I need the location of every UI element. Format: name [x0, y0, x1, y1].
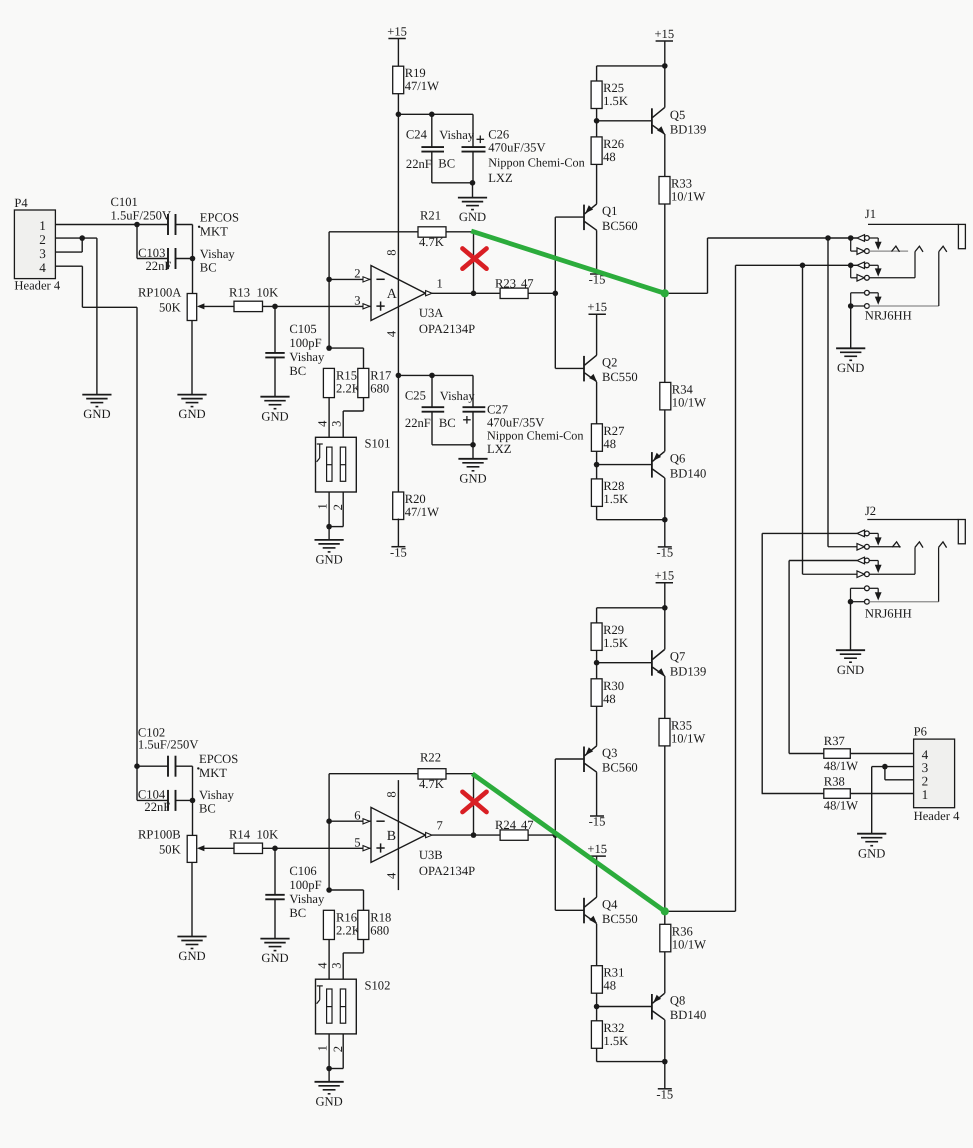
- wire R33 to R34 with output node: [664, 204, 666, 382]
- wire C25 to gnd node: [432, 444, 473, 446]
- svg-text:BD139: BD139: [670, 664, 706, 678]
- wire +15 to R19: [397, 39, 399, 67]
- wire to -15 node B: [597, 1061, 665, 1063]
- svg-text:GND: GND: [315, 553, 342, 567]
- J1 ring NC contact: [851, 252, 915, 282]
- svg-text:3: 3: [354, 294, 360, 308]
- mark EPCOS: [198, 226, 200, 228]
- node S102 gnd: [326, 1066, 332, 1072]
- svg-text:47: 47: [521, 818, 534, 832]
- switch S101: [316, 437, 391, 493]
- svg-text:C105: C105: [289, 322, 316, 336]
- svg-text:R26: R26: [603, 137, 624, 151]
- transistor Q8: [652, 993, 706, 1022]
- J2 ring NC contact: [803, 547, 916, 577]
- svg-text:1.5uF/250V: 1.5uF/250V: [138, 738, 199, 752]
- svg-text:8: 8: [385, 249, 399, 255]
- wire C104 left: [137, 799, 168, 801]
- wire pin2 to pin1 B: [329, 1068, 343, 1070]
- pin labels S101 top: [315, 420, 343, 427]
- svg-text:Nippon Chemi-Con: Nippon Chemi-Con: [487, 429, 583, 443]
- wire pin4 node to C102: [137, 765, 168, 767]
- wire to ground: [472, 445, 474, 459]
- J1 sleeve NC contact: [851, 252, 939, 309]
- wire R20 to -15: [397, 519, 399, 547]
- svg-text:EPCOS: EPCOS: [200, 211, 239, 225]
- resistor R31: [591, 966, 624, 994]
- wire C104 right: [176, 799, 193, 801]
- svg-text:RP100B: RP100B: [138, 827, 181, 841]
- wire to R29: [597, 607, 665, 609]
- svg-text:R23: R23: [495, 276, 516, 290]
- resistor R30: [591, 679, 624, 707]
- wire pin3 up to pin2: [81, 238, 83, 252]
- svg-text:1.5K: 1.5K: [603, 636, 628, 650]
- ground C106: [260, 939, 289, 966]
- svg-text:48: 48: [603, 979, 616, 993]
- wire C27 bottom: [472, 412, 474, 445]
- ground J2: [836, 650, 865, 677]
- wire to ground: [328, 1069, 330, 1082]
- wire Q1 collector to -15: [596, 230, 598, 274]
- svg-text:MKT: MKT: [200, 224, 228, 238]
- node output/feedback A: [471, 291, 477, 297]
- capacitor C104: [138, 788, 235, 816]
- svg-text:47/1W: 47/1W: [405, 505, 439, 519]
- wire supply rail through U3A: [397, 94, 399, 492]
- wire output B right: [665, 910, 736, 912]
- svg-text:R24: R24: [495, 818, 517, 832]
- J1 ring contact: [857, 262, 882, 277]
- svg-text:GND: GND: [83, 407, 110, 421]
- J1 sleeve contact: [851, 290, 882, 304]
- svg-text:10K: 10K: [257, 286, 279, 300]
- wire Q4 base: [555, 909, 584, 911]
- node feedback/pin2: [326, 277, 332, 283]
- capacitor C106: [265, 864, 325, 920]
- potentiometer RP100B: [138, 827, 204, 862]
- connector P6: [914, 724, 961, 823]
- svg-text:7: 7: [437, 819, 443, 833]
- wire Q5 collector: [664, 66, 666, 108]
- wire J2 ring feed: [789, 560, 857, 562]
- svg-text:6: 6: [354, 808, 360, 822]
- wire J1 tip to J2: [827, 238, 829, 547]
- node R15/R17 top: [326, 345, 332, 351]
- wire Q2 emitter to R27: [596, 382, 598, 424]
- svg-text:Header 4: Header 4: [14, 279, 61, 293]
- svg-text:3: 3: [329, 962, 343, 968]
- node pin1/C103 junction: [134, 222, 140, 228]
- wire to ground: [328, 527, 330, 540]
- node P6 pin2/3 tie: [882, 764, 888, 770]
- svg-text:C24: C24: [406, 128, 428, 142]
- wire R34 to Q6 emitter: [664, 410, 666, 452]
- +15 output stage A: [654, 27, 674, 41]
- node rail/C24: [396, 112, 402, 118]
- node C24/C26 gnd: [470, 180, 476, 186]
- potentiometer RP100A: [138, 286, 204, 321]
- wire feedback vertical B: [328, 774, 330, 890]
- wire C103 right: [176, 258, 193, 260]
- svg-text:R31: R31: [603, 966, 624, 980]
- wire Q7 emitter to R35: [664, 676, 666, 719]
- svg-text:R35: R35: [671, 718, 692, 732]
- svg-text:BC550: BC550: [602, 370, 638, 384]
- wire R25 to R26: [596, 109, 598, 137]
- wire to R38: [762, 793, 824, 795]
- node rail/C25: [396, 373, 402, 379]
- wire pin4 down: [81, 266, 83, 307]
- svg-text:Header 4: Header 4: [914, 809, 961, 823]
- svg-text:47/1W: 47/1W: [405, 79, 439, 93]
- resistor R19: [393, 66, 439, 94]
- svg-text:4: 4: [385, 330, 399, 337]
- wire C26 top: [472, 114, 474, 147]
- pin labels S102 bottom: [315, 1045, 345, 1052]
- svg-text:1: 1: [315, 503, 329, 509]
- resistor R15: [323, 368, 360, 397]
- wire pins 2,3 down to ground: [96, 238, 98, 395]
- resistor R35: [659, 718, 705, 746]
- svg-text:+15: +15: [387, 24, 407, 38]
- svg-text:+15: +15: [654, 569, 674, 583]
- resistor R22: [418, 750, 446, 791]
- wire to C24/C26: [398, 113, 473, 115]
- svg-text:R38: R38: [824, 775, 845, 789]
- svg-text:BD140: BD140: [670, 466, 706, 480]
- +15 output stage B: [654, 569, 674, 583]
- svg-text:1.5uF/250V: 1.5uF/250V: [111, 209, 172, 223]
- svg-text:Q7: Q7: [670, 650, 685, 664]
- J2 tip contact: [857, 530, 882, 546]
- node C103 right junction: [190, 256, 196, 262]
- node R27/R28/Q6 base: [594, 462, 600, 468]
- wire J1 sleeve to ground: [850, 306, 852, 348]
- svg-text:R33: R33: [671, 177, 692, 191]
- label NRJ6HH J2: [865, 607, 912, 621]
- svg-text:BC: BC: [289, 364, 306, 378]
- svg-text:-15: -15: [656, 1088, 673, 1102]
- wire to Q6 base: [597, 464, 652, 466]
- resistor R17: [358, 368, 392, 397]
- svg-text:22nF: 22nF: [406, 157, 432, 171]
- wire R37 to P6 pin4: [850, 753, 913, 755]
- wire J2 sleeve to ground: [850, 602, 852, 651]
- svg-text:LXZ: LXZ: [487, 442, 511, 456]
- svg-text:3: 3: [329, 421, 343, 427]
- node C106 tap: [272, 846, 278, 852]
- resistor R34: [660, 382, 706, 410]
- svg-text:B: B: [387, 829, 396, 844]
- svg-text:+15: +15: [587, 300, 607, 314]
- svg-text:GND: GND: [858, 846, 885, 860]
- resistor R20: [393, 492, 439, 520]
- wire U3B output: [432, 834, 500, 836]
- svg-text:MKT: MKT: [199, 766, 227, 780]
- wire Q3 base: [555, 758, 584, 760]
- +15 supply rail A: [387, 24, 407, 38]
- wire R38 to P6 pin1: [850, 793, 913, 795]
- node C104 right junction: [190, 798, 196, 804]
- svg-text:+15: +15: [654, 27, 674, 41]
- svg-text:GND: GND: [261, 951, 288, 965]
- wire R21 right: [446, 231, 474, 233]
- wire down to RP100A: [192, 225, 194, 294]
- svg-text:4: 4: [385, 872, 399, 879]
- J1 tip contact: [857, 235, 882, 250]
- svg-text:2: 2: [39, 232, 46, 247]
- wire R29 to R30: [596, 650, 598, 678]
- svg-text:GND: GND: [837, 663, 864, 677]
- svg-text:10/1W: 10/1W: [672, 937, 706, 951]
- svg-text:BC: BC: [289, 906, 306, 920]
- svg-text:R32: R32: [603, 1021, 624, 1035]
- wire C24 bottom: [431, 152, 433, 183]
- svg-text:OPA2134P: OPA2134P: [419, 322, 475, 336]
- wire to Q8 base: [597, 1006, 652, 1008]
- svg-text:BC: BC: [200, 261, 217, 275]
- wire R17 left: [343, 410, 363, 412]
- svg-text:GND: GND: [837, 361, 864, 375]
- svg-text:8: 8: [385, 791, 399, 797]
- ground J1: [836, 348, 865, 375]
- svg-text:R28: R28: [603, 479, 624, 493]
- connector P4: [14, 196, 61, 293]
- svg-text:R16: R16: [336, 910, 357, 924]
- wire Q8 collector: [664, 1020, 666, 1062]
- wire to Q5 base: [597, 120, 652, 122]
- wire P6 pin3: [872, 766, 914, 768]
- wire output A to J1 tip: [708, 237, 858, 239]
- node R23/base tie A: [553, 291, 559, 297]
- svg-text:100pF: 100pF: [289, 878, 321, 892]
- svg-text:R19: R19: [405, 66, 426, 80]
- node R25/R26/Q5 base: [594, 118, 600, 124]
- node J2 sleeve gnd: [848, 599, 854, 605]
- node feedback/pin6: [326, 818, 332, 824]
- svg-text:GND: GND: [178, 949, 205, 963]
- svg-text:47: 47: [521, 276, 534, 290]
- wire C25 top: [431, 375, 433, 407]
- wire feedback vertical: [328, 232, 330, 348]
- ground C25/C27: [458, 459, 487, 486]
- wire R13 to op-amp pin3: [263, 305, 372, 307]
- transistor Q3: [584, 746, 638, 775]
- wire to -15 node: [597, 519, 665, 521]
- wire +15 down B: [664, 583, 666, 608]
- wire Q4 emitter to R31: [596, 924, 598, 966]
- svg-text:1: 1: [437, 277, 443, 291]
- resistor R29: [591, 623, 628, 651]
- svg-text:GND: GND: [459, 471, 486, 485]
- wire R18 top: [363, 890, 365, 910]
- node R31/R32/Q8 base: [594, 1004, 600, 1010]
- svg-text:3: 3: [39, 246, 46, 261]
- wire C27 top: [472, 375, 474, 407]
- svg-text:R21: R21: [420, 209, 441, 223]
- wire C26 bottom: [472, 152, 474, 183]
- wire P6 gnd: [871, 767, 873, 834]
- svg-text:P4: P4: [14, 196, 28, 210]
- transistor Q7: [652, 650, 706, 679]
- J1 tip NC contact: [851, 238, 908, 254]
- wire R32 bottom: [596, 1048, 598, 1061]
- svg-text:C103: C103: [138, 246, 165, 260]
- svg-text:S102: S102: [365, 978, 391, 992]
- wire R36 to Q8 emitter: [664, 952, 666, 994]
- svg-text:10/1W: 10/1W: [671, 190, 705, 204]
- wire C24 top: [431, 114, 433, 147]
- wire RP100B to ground: [191, 862, 193, 936]
- node S101 gnd: [326, 524, 332, 530]
- wire S101 pin1: [328, 492, 330, 527]
- wire R29 top: [596, 608, 598, 623]
- connector J2: [865, 504, 965, 544]
- J2 sleeve contact: [851, 586, 882, 601]
- label NRJ6HH J1: [865, 309, 912, 323]
- wire output B to J1 ring: [736, 264, 858, 266]
- wire J1 ring to J2: [802, 265, 804, 574]
- wire S102 pin1: [328, 1034, 330, 1069]
- wire down to C104: [136, 766, 138, 800]
- connector J1: [865, 207, 966, 249]
- svg-text:Vishay: Vishay: [440, 389, 476, 403]
- svg-text:1: 1: [922, 787, 929, 802]
- wire inverting input pin6: [329, 820, 371, 822]
- node C25/C27 gnd: [470, 442, 476, 448]
- wire to R25: [597, 65, 665, 67]
- transistor Q5: [652, 108, 706, 137]
- svg-text:4: 4: [39, 260, 46, 275]
- wire supply rail through U3B: [397, 780, 399, 890]
- node J1 ring bracket: [848, 263, 854, 269]
- wire Q2 base: [555, 367, 584, 369]
- resistor R38: [824, 775, 858, 813]
- svg-text:48/1W: 48/1W: [824, 759, 858, 773]
- node J1 ring branch: [800, 263, 806, 269]
- resistor R21: [418, 209, 446, 250]
- wire down to RP100B: [192, 766, 194, 835]
- wire to S102 pin3: [342, 953, 344, 979]
- svg-text:R14: R14: [229, 827, 251, 841]
- ground RP100B: [177, 937, 206, 964]
- -15 output stage A: [656, 546, 673, 560]
- wire to R18: [329, 889, 363, 891]
- svg-text:R25: R25: [603, 81, 624, 95]
- wire R27 to R28: [596, 451, 598, 479]
- ground C24/C26: [458, 198, 487, 225]
- J2 ring contact: [857, 557, 882, 573]
- wire R15 to S101 pin4: [328, 398, 330, 438]
- svg-text:GND: GND: [459, 210, 486, 224]
- svg-text:50K: 50K: [159, 842, 181, 856]
- svg-text:BC550: BC550: [602, 912, 638, 926]
- wire R22 right: [446, 773, 474, 775]
- wire Q3 collector to -15: [596, 772, 598, 816]
- svg-text:Vishay: Vishay: [289, 892, 325, 906]
- J1 plug chevrons: [892, 246, 947, 252]
- wire pin4 down to channel B input: [136, 307, 138, 766]
- mark EPCOS B: [197, 767, 199, 769]
- svg-text:R34: R34: [672, 382, 694, 396]
- capacitor C101: [111, 195, 240, 238]
- svg-text:Nippon Chemi-Con: Nippon Chemi-Con: [488, 156, 584, 170]
- svg-text:GND: GND: [261, 409, 288, 423]
- resistor R14: [234, 843, 263, 853]
- transistor Q1: [584, 204, 638, 233]
- svg-text:2: 2: [331, 504, 345, 510]
- wire RP100A to ground: [191, 321, 193, 395]
- wire Q7 collector: [664, 608, 666, 650]
- wire C102 right: [176, 765, 193, 767]
- wire to -15 B: [664, 1062, 666, 1089]
- green highlight wire channel B: [472, 774, 669, 916]
- wire J2 ring to R37: [788, 561, 790, 754]
- wire pin3 to pin2: [884, 767, 886, 780]
- svg-text:Q3: Q3: [602, 746, 617, 760]
- J2 plug chevrons: [892, 542, 946, 548]
- node J1 sleeve gnd: [848, 303, 854, 309]
- switch S102: [316, 978, 391, 1034]
- svg-text:48: 48: [603, 150, 616, 164]
- capacitor C27: [463, 403, 584, 457]
- svg-text:P6: P6: [914, 724, 927, 738]
- node C105 tap: [272, 304, 278, 310]
- svg-text:BD139: BD139: [670, 123, 706, 137]
- ground C105: [260, 397, 289, 424]
- wire feedback to R21: [329, 231, 418, 233]
- wire P6 pin2: [885, 779, 914, 781]
- svg-text:680: 680: [370, 923, 389, 937]
- red X mark channel A: [463, 249, 487, 269]
- node +15 A: [662, 63, 668, 69]
- resistor R18: [358, 910, 392, 939]
- svg-text:Q6: Q6: [670, 452, 685, 466]
- resistor R13: [234, 301, 263, 311]
- svg-text:R13: R13: [229, 286, 250, 300]
- wire to R17: [329, 347, 363, 349]
- resistor R27: [591, 424, 624, 452]
- svg-text:50K: 50K: [159, 301, 181, 315]
- svg-text:R36: R36: [672, 924, 693, 938]
- svg-text:1: 1: [315, 1045, 329, 1051]
- wire to S101 pin3: [342, 411, 344, 437]
- wire R26 to Q1 emitter: [596, 164, 598, 204]
- op-amp U3B: [354, 791, 475, 879]
- wire C101 right: [176, 224, 193, 226]
- svg-text:Vishay: Vishay: [200, 247, 236, 261]
- svg-text:2: 2: [331, 1046, 345, 1052]
- svg-text:OPA2134P: OPA2134P: [419, 864, 475, 878]
- wire +15 to Q2 collector: [596, 314, 598, 355]
- label R13 value: [229, 286, 278, 300]
- svg-text:48/1W: 48/1W: [824, 799, 858, 813]
- wire R30 to Q3 emitter: [596, 706, 598, 746]
- svg-text:10/1W: 10/1W: [672, 395, 706, 409]
- svg-text:Vishay: Vishay: [199, 788, 235, 802]
- capacitor C105: [265, 322, 325, 378]
- resistor R37: [824, 734, 858, 773]
- node C24 tap: [429, 112, 435, 118]
- wire output A right: [665, 292, 708, 294]
- svg-text:Q8: Q8: [670, 994, 685, 1008]
- svg-text:470uF/35V: 470uF/35V: [488, 141, 545, 155]
- svg-text:C25: C25: [405, 389, 426, 403]
- wire S101 pin2: [342, 492, 344, 527]
- wire Q5 emitter to R33: [664, 134, 666, 177]
- svg-text:5: 5: [354, 836, 360, 850]
